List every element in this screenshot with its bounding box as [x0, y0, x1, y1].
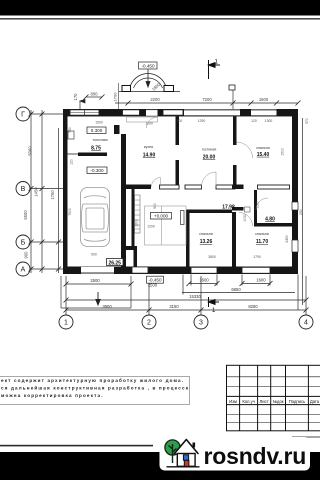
- window: топочная top: [70, 110, 99, 115]
- svg-text:№док: №док: [273, 399, 284, 404]
- svg-text:ся дальнейшая конструктивная р: ся дальнейшая конструктивная разработка …: [1, 385, 189, 391]
- svg-text:1200: 1200: [135, 219, 139, 227]
- wall: bath bottom: [254, 223, 292, 227]
- svg-text:800: 800: [91, 92, 99, 97]
- driveway apron outline: [61, 276, 131, 308]
- section mark 1 top: [209, 60, 221, 79]
- window: спальня11 bottom: [242, 267, 270, 273]
- top ext vertical line: [232, 90, 234, 109]
- porch front line: [119, 91, 180, 93]
- left dimension vertical line outer: [30, 110, 32, 273]
- svg-text:4.80: 4.80: [265, 217, 275, 223]
- svg-text:Подпись: Подпись: [289, 399, 306, 404]
- svg-text:1300: 1300: [265, 119, 273, 123]
- svg-text:2: 2: [147, 320, 151, 327]
- watermark house window: [183, 455, 188, 460]
- svg-text:5060: 5060: [28, 146, 33, 156]
- axis line А: [30, 268, 63, 270]
- axis line Г: [30, 113, 63, 115]
- door: garage gate: [81, 267, 114, 274]
- top ext small box: [229, 85, 235, 90]
- wall: спальня13 left: [186, 212, 190, 267]
- svg-text:250: 250: [299, 209, 303, 215]
- note paragraph frame: [0, 377, 190, 405]
- svg-text:2500: 2500: [90, 278, 100, 283]
- door swing arc гостиная: [202, 172, 217, 187]
- window: right wall small: [292, 202, 298, 210]
- svg-text:17.98: 17.98: [222, 205, 235, 211]
- porch left dim line 1700: [118, 83, 120, 109]
- svg-text:спальня: спальня: [256, 146, 270, 150]
- wall: mid horizontal seg3 lintel: [185, 185, 202, 189]
- svg-text:170: 170: [73, 93, 78, 101]
- car in garage: [81, 188, 110, 247]
- svg-text:1600: 1600: [199, 278, 209, 283]
- svg-text:1500: 1500: [281, 148, 285, 156]
- inner face line of top wall: [68, 116, 293, 118]
- porch column right: [164, 86, 174, 92]
- svg-text:3: 3: [199, 320, 203, 327]
- svg-text:8280: 8280: [248, 304, 258, 309]
- elevation box -0.450 bottom: [147, 276, 164, 283]
- svg-text:120: 120: [70, 159, 74, 165]
- section mark 1 bottom: [209, 297, 220, 307]
- top dim 800 line: [86, 96, 102, 98]
- top gray divider line: [0, 18, 320, 20]
- wall: кухня/гостиная divider lower: [176, 160, 180, 185]
- svg-text:Лист: Лист: [260, 399, 269, 404]
- elevation box 0.300: [87, 127, 106, 134]
- wall: mid horizontal seg6 lintel: [258, 185, 290, 189]
- svg-text:1750: 1750: [50, 190, 55, 200]
- door swing arc кухня: [152, 178, 161, 187]
- watermark tree trunk: [169, 444, 177, 463]
- svg-text:1600: 1600: [259, 97, 269, 102]
- svg-text:15.40: 15.40: [257, 152, 270, 158]
- stairs hatch strip: [135, 195, 141, 233]
- svg-text:700: 700: [177, 119, 183, 123]
- bottom window dim line left: [189, 283, 217, 285]
- wall: hall bottom step: [124, 246, 137, 250]
- porch column left: [122, 86, 131, 92]
- bottom main dim line: [66, 309, 306, 311]
- bottom thin line: [0, 445, 153, 447]
- svg-text:900: 900: [24, 251, 29, 259]
- porch entrance arc inner: [134, 78, 163, 88]
- svg-text:14.90: 14.90: [143, 153, 156, 159]
- axis line В: [30, 188, 63, 190]
- wall: bath left: [254, 190, 257, 226]
- svg-text:2200: 2200: [150, 97, 160, 102]
- svg-text:1030: 1030: [243, 214, 247, 222]
- wall: топочная/garage partition: [78, 153, 107, 157]
- svg-text:1450: 1450: [34, 187, 39, 197]
- top dim line: [115, 102, 298, 104]
- watermark tree foliage: [165, 440, 180, 455]
- svg-text:20.00: 20.00: [203, 155, 216, 161]
- axis line Б: [30, 241, 63, 243]
- svg-text:Б: Б: [21, 240, 26, 247]
- window: спальня13 bottom: [191, 267, 217, 273]
- wall: left exterior: [63, 109, 68, 274]
- svg-text:1: 1: [64, 320, 68, 327]
- door swing arc entrance: [147, 117, 158, 128]
- wall: гостиная top thin section: [184, 109, 240, 116]
- svg-text:8.75: 8.75: [91, 146, 101, 152]
- left dim ticks: [29, 112, 62, 272]
- bottom dim ticks: [64, 281, 309, 313]
- bottom 6850 dim line: [182, 292, 295, 294]
- svg-text:А: А: [21, 267, 26, 274]
- bottom axis circle 1: [59, 315, 313, 329]
- svg-text:1200: 1200: [147, 225, 155, 229]
- bottom total dim line: [66, 299, 306, 301]
- left dimension vertical line inner: [41, 110, 43, 273]
- svg-text:топочная: топочная: [92, 138, 107, 142]
- svg-text:спальня: спальня: [255, 232, 269, 236]
- elevation box +0.000: [151, 213, 172, 220]
- svg-text:6850: 6850: [231, 287, 241, 292]
- svg-text:26.25: 26.25: [108, 260, 121, 266]
- svg-text:13.26: 13.26: [200, 239, 213, 245]
- svg-text:-0.300: -0.300: [90, 168, 103, 173]
- wall: гостиная/спальня divider lower: [233, 165, 237, 185]
- wall: hall vertical: [132, 189, 135, 246]
- svg-text:1500: 1500: [95, 121, 103, 125]
- left dimension vertical line third: [58, 128, 60, 273]
- svg-text:2450: 2450: [285, 235, 289, 243]
- vent flag: [80, 100, 85, 110]
- window: гостиная top: [163, 110, 183, 115]
- wall: top exterior: [63, 109, 298, 116]
- svg-text:1100: 1100: [256, 201, 260, 208]
- svg-text:спальня: спальня: [199, 232, 213, 236]
- svg-text:900: 900: [153, 203, 157, 209]
- svg-text:Кол.уч: Кол.уч: [242, 399, 255, 404]
- svg-text:1700: 1700: [113, 92, 118, 102]
- bottom window dim line right: [242, 283, 270, 285]
- svg-text:ект содержит архитектурную про: ект содержит архитектурную проработку жи…: [1, 377, 184, 383]
- door swing arc спальня15: [237, 142, 253, 158]
- svg-text:120: 120: [251, 119, 257, 123]
- right ext line: [302, 118, 304, 305]
- wall: mid horizontal seg5: [232, 185, 244, 190]
- wall: garage/kitchen divider: [121, 134, 126, 268]
- svg-text:В: В: [21, 186, 26, 193]
- window edge ext lines: [190, 275, 192, 286]
- svg-text:+0.000: +0.000: [154, 214, 169, 219]
- svg-text:5500: 5500: [23, 210, 28, 220]
- svg-text:7500: 7500: [68, 208, 72, 216]
- wall: right exterior: [292, 109, 298, 274]
- svg-text:можна корректировка проекта.: можна корректировка проекта.: [1, 393, 104, 398]
- svg-text:4: 4: [304, 320, 308, 327]
- svg-text:Изм: Изм: [229, 399, 237, 404]
- stamp line below table: [292, 436, 320, 438]
- watermark house roof: [175, 440, 199, 454]
- bottom axis extension lines: [66, 118, 306, 315]
- elevation box -0.300: [87, 167, 107, 174]
- svg-text:3150: 3150: [169, 304, 179, 309]
- driveway down arrow: [96, 292, 100, 305]
- door leaf спальня13: [181, 211, 185, 225]
- door: entrance gap: [146, 109, 158, 115]
- closet outline hall: [145, 206, 187, 245]
- small interior dims: [68, 118, 309, 259]
- title block table: [227, 365, 320, 431]
- svg-text:гостиная: гостиная: [202, 148, 217, 152]
- watermark house door: [184, 460, 189, 466]
- svg-text:-0.450: -0.450: [148, 278, 161, 283]
- wall: bottom exterior: [63, 267, 298, 275]
- door: hall back opening: [132, 267, 148, 273]
- svg-text:750: 750: [68, 127, 72, 133]
- wall: гостиная/спальня divider upper: [233, 116, 237, 145]
- wall: bedrooms divider: [232, 212, 236, 267]
- svg-text:1790: 1790: [253, 255, 261, 259]
- svg-text:11.70: 11.70: [256, 239, 268, 245]
- wall: mid horizontal seg2 lintel: [160, 185, 180, 189]
- svg-text:Дата: Дата: [310, 399, 320, 404]
- note paragraph: [1, 377, 189, 398]
- wall: спальня13 top: [186, 210, 232, 214]
- kitchen counter: [127, 117, 158, 122]
- watermark ground line: [167, 466, 200, 468]
- wall: bath stub: [232, 207, 244, 211]
- area box 26.25: [107, 259, 124, 266]
- axis circle Г: [16, 107, 30, 276]
- svg-text:1290: 1290: [198, 119, 206, 123]
- wall: mid horizontal seg1: [126, 185, 151, 190]
- chimney pier: [114, 125, 120, 134]
- wall: кухня/гостиная divider upper: [176, 116, 180, 145]
- window: porch left box: [123, 110, 140, 115]
- svg-text:Г: Г: [21, 112, 25, 119]
- svg-text:15330: 15330: [189, 294, 201, 299]
- watermark house body: [177, 454, 195, 467]
- boiler symbol: [68, 131, 74, 139]
- wall: mid horizontal seg4 lintel: [216, 185, 235, 189]
- svg-text:1200: 1200: [145, 122, 153, 126]
- top black bar: [0, 0, 320, 16]
- door swing arc спальня11: [239, 213, 253, 227]
- watermark house chimney: [193, 443, 196, 448]
- porch entrance arc outer: [130, 74, 167, 88]
- svg-text:кухня: кухня: [144, 145, 153, 149]
- svg-text:3800: 3800: [208, 255, 216, 259]
- porch arc down arrow: [146, 70, 150, 88]
- watermark white box: [160, 437, 311, 471]
- svg-text:570: 570: [305, 118, 309, 124]
- svg-text:-0.450: -0.450: [141, 64, 154, 69]
- svg-text:rosndv.ru: rosndv.ru: [204, 443, 307, 469]
- elevation box 0.450 top: [139, 62, 158, 69]
- svg-text:7200: 7200: [202, 97, 212, 102]
- svg-text:500: 500: [91, 253, 97, 257]
- bottom black bar: [0, 452, 320, 480]
- svg-text:0.300: 0.300: [91, 128, 103, 133]
- window: right wall vent: [292, 240, 298, 252]
- wall: hall step vertical: [134, 250, 138, 267]
- title block header labels: [229, 399, 320, 404]
- window: спальня top right: [251, 109, 277, 116]
- svg-text:1600: 1600: [256, 278, 266, 283]
- washbasin symbol: [245, 207, 251, 212]
- porch dim line: [66, 283, 131, 285]
